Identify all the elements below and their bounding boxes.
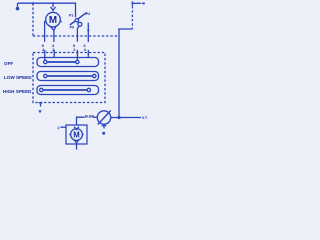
wire W5 ground stub below switch: [40, 103, 42, 107]
junction dot resistor node: [117, 116, 120, 119]
svg-text:HIGH SPEED: HIGH SPEED: [3, 89, 32, 94]
motor M2 left lead: [60, 126, 66, 128]
wire W3 resume: [76, 50, 78, 60]
connector horizontal top right: [132, 2, 141, 4]
motor M2 bottom connector V: [74, 140, 79, 143]
arrowhead wire W5: [38, 110, 41, 113]
switch row HIGH slot: [37, 86, 99, 95]
wire W2 resume: [53, 50, 55, 58]
motor M2 left nub: [69, 134, 71, 136]
connector C1 dashed bottom edge: [33, 35, 119, 37]
svg-text:P0: P0: [70, 25, 74, 29]
resistor R1 slash: [98, 111, 111, 125]
resistor R1 circle: [97, 111, 110, 124]
wire W4 from switch P2: [87, 23, 89, 42]
motor M1 left brush stub: [45, 22, 46, 27]
blower switch box dashed: [33, 53, 105, 103]
svg-text:M: M: [49, 15, 57, 26]
terminal dot top left: [16, 7, 20, 11]
HIGH row contact left: [40, 88, 43, 91]
motor M1 right brush stub: [60, 21, 62, 23]
wire W1 resume to switch: [44, 50, 46, 60]
HIGH row bridge wire: [43, 89, 87, 91]
wire W3 from switch contact: [77, 26, 79, 42]
wire W1 lower: [44, 26, 46, 42]
motor M2 box: [66, 125, 87, 144]
wire after B.Bk label: [93, 116, 98, 118]
motor M1 connector arrow: [51, 7, 56, 10]
LOW row bridge wire: [47, 75, 93, 77]
HIGH row contact right: [87, 88, 90, 91]
resistor R1 lead tick: [102, 125, 107, 127]
motor M1 top lead: [52, 3, 54, 7]
OFF row contact left: [44, 60, 47, 63]
motor M2 bottom lead: [76, 144, 78, 150]
LOW row contact left: [44, 74, 47, 77]
switch S1 moving contact: [78, 22, 82, 26]
wire: top feed B+ line: [18, 3, 76, 17]
motor M2 top connector V: [74, 127, 79, 130]
motor M1 circle: [46, 12, 61, 27]
svg-text:LOW SPEED: LOW SPEED: [4, 75, 32, 80]
svg-text:B.Bk: B.Bk: [85, 113, 95, 118]
connector tick vertical: [131, 1, 133, 5]
connector dashed vertical right: [131, 6, 133, 29]
wire W4 resume: [87, 50, 89, 58]
switch row OFF slot: [37, 58, 99, 67]
connector C1 dashed left edge (motor enclosure): [32, 3, 34, 36]
svg-text:V.T: V.T: [142, 116, 148, 120]
switch S1 blade: [70, 13, 87, 25]
arrowhead wire W4: [87, 30, 90, 33]
svg-text:M: M: [73, 130, 80, 139]
junction dot at dashed edge: [32, 2, 34, 4]
motor M2 right nub: [82, 134, 84, 136]
wire: motor M2 to resistor: [77, 117, 85, 125]
wire: right feed down to resistor node: [119, 29, 132, 118]
svg-text:OFF: OFF: [4, 61, 13, 66]
wire W5 crossbar: [39, 102, 43, 104]
wire W2 motor stem: [53, 30, 55, 42]
switch row LOW slot: [37, 72, 99, 81]
svg-text:P2: P2: [86, 12, 90, 16]
wire: resistor output to V.T: [111, 117, 141, 119]
svg-text:P1: P1: [69, 14, 73, 18]
LOW row contact right: [93, 74, 96, 77]
junction dot at motor lead: [52, 2, 54, 4]
terminal stub with dot: [17, 3, 19, 7]
resistor R1 bottom lead: [103, 124, 105, 128]
OFF row bridge wire: [47, 61, 76, 63]
motor M2 circle: [71, 129, 83, 141]
motor M1 bottom V leads: [50, 26, 56, 30]
OFF row contact right: [76, 60, 79, 63]
svg-text:2: 2: [57, 126, 59, 130]
connector end dash top right: [142, 3, 145, 5]
resistor R1 bottom dot: [102, 132, 105, 135]
switch S1 pivot contact: [75, 19, 78, 22]
